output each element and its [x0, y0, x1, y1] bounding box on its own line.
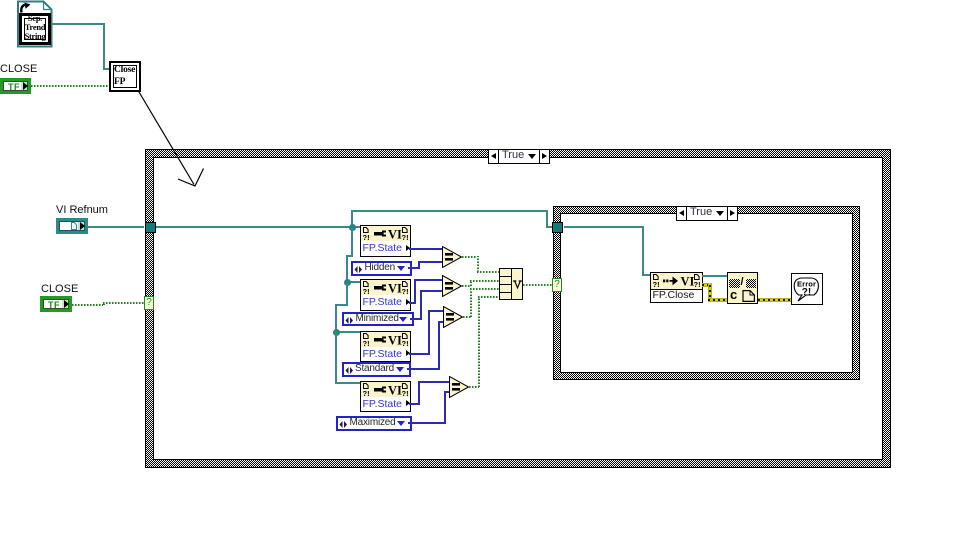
- enum constant Hidden: [351, 261, 412, 276]
- arrow annotation: [130, 85, 220, 195]
- svg-text:VI: VI: [388, 383, 402, 397]
- error wire close ref to error handler: [758, 298, 792, 302]
- blue wire node2 FP.State to T2: [409, 302, 416, 304]
- inner case structure border: [553, 206, 860, 380]
- junction dot 3: [333, 329, 340, 336]
- property node 1 header: [360, 225, 411, 242]
- blue wire node3 FP.State to T3: [409, 353, 430, 355]
- error handler Error?!: [791, 273, 823, 305]
- enum constant Maximized: [336, 416, 412, 431]
- property node 2 header: [360, 279, 411, 296]
- wire: branch down to node 3 (teal): [346, 283, 348, 306]
- enum constant Standard: [342, 362, 411, 377]
- svg-text:?!: ?!: [363, 233, 370, 241]
- wire: CLOSE to outer ? tunnel (green dotted): [72, 304, 103, 306]
- wire: static ref to Close FP (teal): [52, 23, 105, 25]
- property node 2 FP.State row: [360, 295, 411, 311]
- junction dot 2: [344, 279, 351, 286]
- invoke node FP.Close header: [650, 272, 703, 290]
- compound arithmetic OR node: [499, 268, 523, 300]
- svg-text:VI: VI: [680, 275, 694, 289]
- inner case selector label True: [676, 206, 738, 221]
- svg-text:?!: ?!: [402, 233, 409, 241]
- green wire T2 to OR in2: [462, 285, 471, 287]
- wire: branch down to node 4 (teal): [335, 333, 337, 383]
- svg-text:?!: ?!: [363, 389, 370, 397]
- wire: main refnum trunk to property node 1 (teal): [156, 226, 360, 228]
- wire: CLOSE to Close FP (green dotted): [31, 85, 109, 87]
- svg-text:VI: VI: [388, 333, 402, 347]
- blue wire node1 FP.State to T1: [409, 248, 443, 250]
- svg-text:?!: ?!: [402, 339, 409, 347]
- close reference node: [727, 272, 758, 304]
- property node 4 header: [360, 381, 411, 398]
- static VI reference Sep.Trend.String: [0, 0, 60, 50]
- wire: branch up to inner case (teal): [351, 210, 353, 228]
- blue wire Standard to T3: [407, 368, 440, 370]
- wire: VI refnum to outer tunnel (teal): [88, 226, 144, 228]
- enum constant Minimized: [342, 312, 414, 327]
- wire: inner tunnel to invoke node (teal): [564, 226, 644, 228]
- property node 3 header: [360, 331, 411, 348]
- svg-text:?!: ?!: [363, 339, 370, 347]
- green wire T4 to OR in4: [469, 386, 479, 388]
- boolean terminal CLOSE (bottom) TF: [40, 296, 72, 312]
- svg-text:VI: VI: [388, 228, 402, 242]
- blue wire Maximized to T4: [408, 422, 447, 424]
- VI refnum terminal: [56, 218, 88, 234]
- invoke node FP.Close row: [650, 290, 703, 304]
- property node 4 FP.State row: [360, 397, 411, 412]
- green wire T3 to OR in3: [463, 316, 471, 318]
- comparator T2 equal?: [442, 275, 463, 297]
- blue wire Hidden to T1: [408, 267, 420, 269]
- wire: invoke to close reference (teal): [702, 275, 727, 277]
- label CLOSE (top): [0, 63, 37, 75]
- svg-text:?!: ?!: [402, 389, 409, 397]
- svg-text:?!: ?!: [802, 287, 811, 298]
- svg-text:?!: ?!: [693, 280, 700, 289]
- error wire invoke to close ref: [702, 283, 712, 287]
- green wire T1 to OR in1: [462, 256, 478, 258]
- svg-text:?!: ?!: [652, 280, 659, 289]
- static VI icon box: [19, 13, 51, 45]
- comparator T3 equal?: [443, 306, 464, 328]
- svg-text:?!: ?!: [402, 287, 409, 295]
- property node 1 FP.State row: [360, 241, 411, 257]
- green wire OR out to inner ? tunnel: [523, 284, 553, 286]
- wire: branch down to node 2 (teal): [351, 228, 353, 257]
- subVI Close FP: [109, 61, 141, 92]
- outer tunnel (refnum): [145, 222, 156, 233]
- svg-text:?!: ?!: [363, 287, 370, 295]
- comparator T1 equal?: [442, 246, 463, 268]
- inner tunnel (case selector ?): [552, 278, 562, 292]
- property node 3 FP.State row: [360, 347, 411, 362]
- outer case selector label True: [488, 149, 550, 164]
- comparator T4 equal?: [449, 376, 470, 398]
- boolean terminal CLOSE (top) TF: [0, 78, 31, 94]
- svg-text:VI: VI: [388, 282, 402, 296]
- label CLOSE (bottom): [41, 283, 78, 295]
- inner tunnel (refnum): [552, 222, 563, 233]
- blue wire Minimized to T2: [410, 318, 422, 320]
- outer case structure border: [145, 149, 891, 468]
- outer tunnel (case selector ?): [144, 296, 154, 310]
- blue wire node4 FP.State to T4: [409, 403, 420, 405]
- junction dot 1: [349, 224, 356, 231]
- label VI Refnum: [56, 204, 108, 216]
